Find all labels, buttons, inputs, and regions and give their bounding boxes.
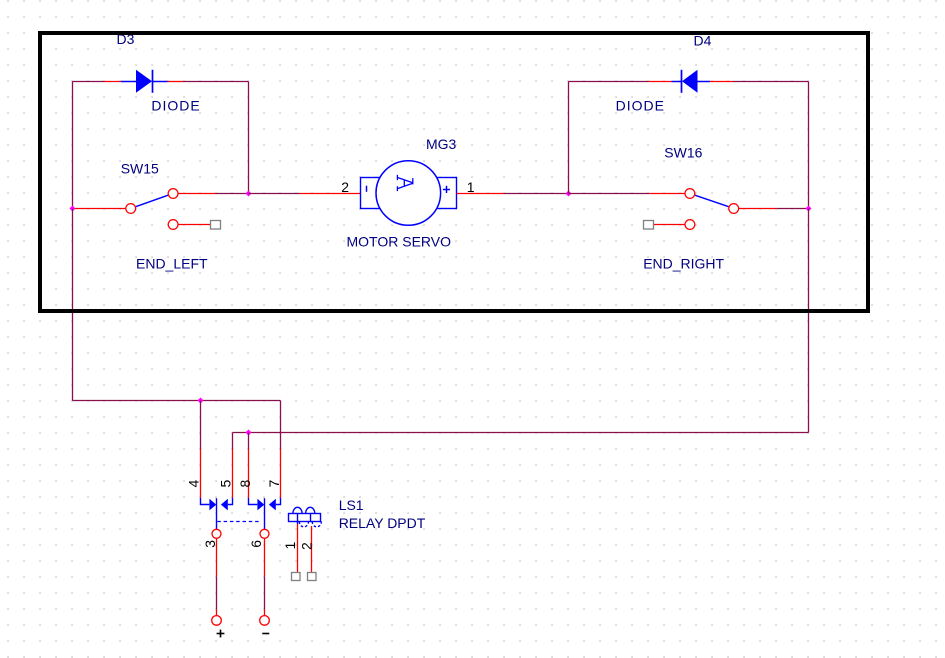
wire (drop to relay pin 8) — [248, 433, 250, 450]
switch SW16 pole pin — [739, 208, 777, 210]
terminal square (SW16 unused throw) — [644, 221, 654, 230]
wire (motor pin 1 to junction) — [504, 193, 569, 195]
wire (D3 loop right vertical) — [248, 82, 250, 194]
wire (D3 loop top-left) — [73, 81, 105, 83]
wire (left vertical lower) — [72, 209, 74, 401]
diode D3 — [121, 70, 168, 93]
diode D4 — [671, 70, 710, 93]
diode D4 cathode pin — [649, 81, 672, 83]
svg-text:1: 1 — [467, 179, 475, 195]
wire (pin 3 to + terminal) — [216, 576, 218, 609]
junction node (pin 8 branch) — [246, 430, 252, 436]
junction node (SW16 pole / right bus) — [806, 206, 812, 212]
wire (left vertical upper) — [72, 82, 74, 209]
svg-text:SW15: SW15 — [121, 161, 159, 177]
label - — [262, 633, 269, 635]
terminal - circle — [260, 616, 270, 626]
relay LS1 pin 5 — [232, 449, 234, 498]
svg-text:7: 7 — [266, 480, 282, 488]
svg-text:RELAY DPDT: RELAY DPDT — [339, 515, 426, 531]
svg-text:SW16: SW16 — [664, 145, 702, 161]
diode D3 anode pin — [104, 81, 121, 83]
wire (D4 loop top-left) — [569, 81, 649, 83]
relay pin 6 lead — [264, 538, 266, 576]
switch SW15 throw pin — [178, 193, 215, 195]
svg-text:END_RIGHT: END_RIGHT — [643, 256, 724, 272]
svg-text:4: 4 — [186, 480, 202, 488]
junction node (left bus / SW15 pole) — [70, 206, 76, 212]
relay LS1 contact B — [249, 498, 281, 530]
switch SW16 body — [685, 189, 739, 230]
svg-text:LS1: LS1 — [339, 497, 364, 513]
svg-text:DIODE: DIODE — [616, 98, 665, 114]
relay LS1 pin 6 terminal circle — [260, 529, 269, 538]
wire (drop to relay pin 5) — [232, 433, 234, 450]
svg-text:MG3: MG3 — [426, 136, 457, 152]
terminal + pin — [216, 609, 218, 616]
terminal - pin — [264, 609, 266, 616]
relay LS1 pin 8 — [248, 449, 250, 498]
svg-text:5: 5 — [218, 480, 234, 488]
wire (junction to motor pin 2) — [249, 193, 301, 195]
wire (right vertical upper) — [808, 82, 810, 209]
wire (horizontal net to pins 5,8) — [233, 432, 809, 434]
wire (SW15 throw to junction) — [216, 193, 249, 195]
label + — [217, 630, 225, 638]
svg-text:2: 2 — [341, 179, 349, 195]
svg-text:MOTOR SERVO: MOTOR SERVO — [347, 234, 452, 250]
svg-text:8: 8 — [237, 480, 253, 488]
terminal + circle — [212, 616, 222, 626]
switch SW16 unused throw pin — [654, 224, 685, 226]
relay LS1 pin 4 — [200, 449, 202, 498]
relay pin 3 lead — [216, 538, 218, 576]
svg-text:3: 3 — [202, 540, 218, 548]
junction node (SW15 throw / D3) — [246, 191, 252, 197]
terminal square (SW15 unused throw) — [211, 221, 221, 230]
switch SW16 throw pin — [649, 193, 684, 195]
relay LS1 contact A — [201, 498, 233, 530]
terminal square (coil pin 1) — [292, 573, 301, 581]
wire (D4 loop top-right) — [733, 81, 809, 83]
wire (D3 loop top-right) — [183, 81, 249, 83]
svg-text:DIODE: DIODE — [151, 98, 200, 114]
relay LS1 coil pin 2 — [311, 526, 313, 573]
wire (right vertical lower) — [808, 209, 810, 433]
terminal square (coil pin 2) — [308, 573, 317, 581]
svg-text:2: 2 — [299, 542, 315, 550]
switch SW15 body — [126, 189, 178, 230]
wire (drop to relay pin 4) — [200, 401, 202, 450]
relay LS1 coil pin 1 — [297, 524, 299, 573]
wire (D4 loop left vertical) — [568, 82, 570, 194]
junction node (D4 loop / motor line) — [566, 191, 572, 197]
wire (SW16 pole to junction) — [777, 208, 809, 210]
motor MG3 pin 2 — [300, 193, 361, 195]
wire (drop to relay pin 7) — [280, 401, 282, 450]
svg-text:END_LEFT: END_LEFT — [136, 256, 208, 272]
wire (junction to SW16 throw) — [569, 193, 650, 195]
relay LS1 pin 3 terminal circle — [212, 529, 221, 538]
diode D4 anode pin — [710, 81, 733, 83]
relay LS1 coil — [289, 507, 322, 527]
relay LS1 mechanical link (dashed) — [217, 521, 261, 523]
wire (pin 6 to - terminal) — [264, 576, 266, 609]
motor MG3 — [361, 161, 457, 226]
svg-text:1: 1 — [282, 542, 298, 550]
frame border — [40, 33, 868, 311]
diode D3 cathode pin — [168, 81, 183, 83]
wire (horizontal net to pins 4,7) — [73, 400, 281, 402]
svg-text:6: 6 — [248, 540, 264, 548]
switch SW15 unused throw pin — [178, 224, 210, 226]
junction node (pin 4 branch) — [198, 398, 204, 404]
relay LS1 pin 7 — [280, 449, 282, 498]
motor MG3 pin 1 — [457, 193, 505, 195]
switch SW15 pole pin — [75, 208, 125, 210]
